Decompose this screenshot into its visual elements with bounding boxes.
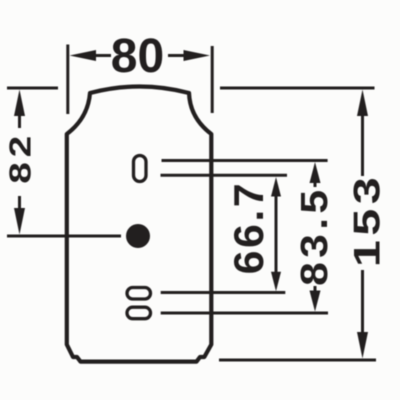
dim 66.7: top extension line (from top slot)	[161, 174, 288, 177]
svg-text:82: 82	[3, 131, 37, 184]
svg-text:83.5: 83.5	[292, 186, 335, 286]
dim 83.5: up arrow	[310, 162, 321, 183]
dim 83.5: top extension line (from top slot)	[162, 159, 328, 162]
fixture body outline	[67, 87, 212, 362]
dim 82: down arrow	[14, 208, 25, 235]
dim 82: top extension line	[7, 87, 58, 90]
dim 82: up arrow	[14, 90, 25, 117]
lower oval hole 2	[127, 307, 151, 319]
dim 66.7: dimension line with two arrows	[275, 188, 278, 282]
dim 80: right extension line	[211, 46, 214, 113]
lower oval hole 1	[127, 288, 151, 300]
dim 80: right arrow	[184, 50, 211, 61]
svg-text:66.7: 66.7	[225, 181, 272, 275]
svg-text:153: 153	[347, 173, 388, 267]
center mounting hole (filled circle)	[126, 224, 150, 248]
dim 153: bottom extension line	[219, 359, 376, 362]
top slot (vertical rounded hole)	[134, 156, 147, 182]
dim 83.5: bottom extension line (from lower oval)	[161, 312, 328, 315]
dim 153: up arrow	[357, 90, 368, 117]
dim 153: top extension line	[220, 87, 375, 90]
dim 80: left extension line	[66, 45, 69, 115]
dim 153: down arrow	[357, 332, 368, 359]
dim 83.5: down arrow	[310, 291, 321, 312]
dim 66.7: bottom extension line (from upper oval)	[161, 291, 286, 294]
dim 82: bottom extension line (to circle)	[7, 235, 121, 238]
dim 80: left arrow	[70, 50, 97, 61]
svg-text:80: 80	[111, 30, 164, 83]
